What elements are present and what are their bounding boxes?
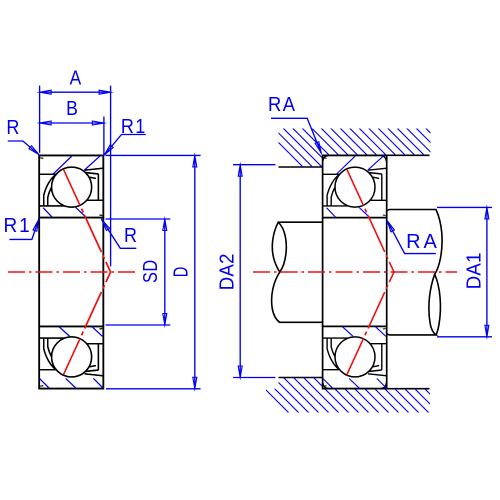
svg-text:R: R [124, 225, 137, 247]
svg-text:R1: R1 [4, 214, 32, 237]
svg-text:DA1: DA1 [464, 252, 486, 289]
svg-text:DA2: DA2 [217, 253, 239, 290]
svg-text:A: A [70, 66, 82, 88]
svg-text:R: R [6, 117, 19, 139]
svg-text:RA: RA [268, 94, 297, 116]
svg-text:SD: SD [138, 259, 161, 283]
svg-text:B: B [66, 97, 78, 119]
svg-text:R1: R1 [121, 116, 147, 138]
svg-text:D: D [169, 267, 192, 277]
svg-text:RA: RA [406, 231, 440, 253]
